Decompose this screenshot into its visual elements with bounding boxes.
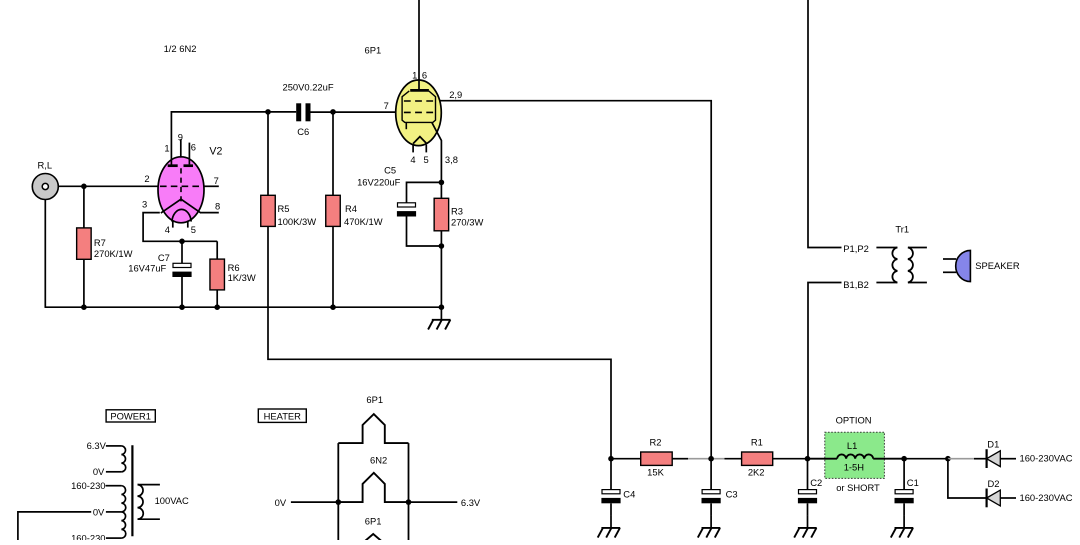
svg-text:C2: C2 [810,477,822,488]
svg-text:250V0.22uF: 250V0.22uF [283,81,334,92]
svg-text:C3: C3 [726,489,738,500]
ground below C4 [598,515,621,537]
label 1/2 6N2 [164,43,197,54]
svg-text:15K: 15K [647,467,664,478]
node C1 junction [901,456,907,462]
svg-text:D2: D2 [988,478,1000,489]
wire input to V2 grid pin 2 [58,185,158,187]
svg-text:6: 6 [422,69,427,80]
capacitor C5 16V220uF [357,164,441,246]
input jack R,L [32,160,58,200]
svg-text:R7: R7 [94,237,106,248]
resistor R1 2K2 [742,436,808,477]
svg-text:HEATER: HEATER [264,410,302,421]
svg-text:B1,B2: B1,B2 [843,279,869,290]
svg-text:160-230VAC: 160-230VAC [1020,453,1073,464]
svg-text:R1: R1 [751,436,763,447]
svg-text:R5: R5 [278,203,290,214]
inductor L1 1-5H (OPTION box) [808,414,905,493]
svg-text:1: 1 [412,69,417,80]
svg-text:C1: C1 [907,477,919,488]
svg-text:or SHORT: or SHORT [836,482,880,493]
node C6/R4 junction [330,109,336,115]
resistor R6 1K/3W [210,241,256,307]
capacitor C2 [798,459,822,516]
svg-text:C6: C6 [297,126,309,137]
svg-text:2: 2 [144,173,149,184]
svg-text:R,L: R,L [38,160,53,171]
svg-text:470K/1W: 470K/1W [344,216,383,227]
svg-text:SPEAKER: SPEAKER [975,260,1020,271]
svg-text:7: 7 [214,175,219,186]
heater 6P1 top [338,394,408,443]
wire C1 node to rectifier node [904,458,948,460]
capacitor C4 [601,459,635,516]
svg-text:4: 4 [165,224,170,235]
svg-text:1-5H: 1-5H [844,462,864,473]
svg-text:9: 9 [178,132,183,143]
svg-text:16V47uF: 16V47uF [128,262,166,273]
ground below C2 [794,515,817,537]
svg-text:R2: R2 [650,436,662,447]
wire V2 cathode pin 3 [143,213,217,242]
svg-text:0V: 0V [93,466,105,477]
node C2/L1 junction [805,456,811,462]
wire R5 to B+ node [268,226,611,458]
svg-text:1K/3W: 1K/3W [228,272,256,283]
resistor R7 270K/1W [77,186,133,307]
wire R3 to ground rail [440,246,442,307]
svg-text:3: 3 [142,198,147,209]
svg-text:C4: C4 [623,489,635,500]
svg-text:2K2: 2K2 [748,467,765,478]
svg-text:270/3W: 270/3W [451,216,483,227]
label 6P1 [365,44,382,55]
svg-text:P1,P2: P1,P2 [843,243,869,254]
svg-text:6.3V: 6.3V [461,497,481,508]
svg-text:1/2 6N2: 1/2 6N2 [164,43,197,54]
wire 6P1 plate to top edge [418,0,420,89]
label HEATER [258,409,306,422]
svg-text:1: 1 [164,142,169,153]
wire heater 0V [275,497,339,508]
svg-text:0V: 0V [93,506,105,517]
svg-text:6.3V: 6.3V [87,440,107,451]
diode D2 [948,459,1073,508]
ground chassis symbol [428,307,451,329]
node ground rail end [439,304,445,310]
svg-text:0V: 0V [275,497,287,508]
svg-text:4: 4 [410,154,415,165]
node plate/R5/C6 junction [265,109,271,115]
tube V2 (1/2 6N2 dual triode) [142,132,222,236]
node input/R7 junction [81,184,87,190]
wire cathode 3,8 [432,122,442,182]
wire V2 plate pin 1 to C6 [171,112,296,166]
resistor R3 270/3W [434,182,483,246]
node R7/ground rail [81,304,87,310]
svg-text:160-230VAC: 160-230VAC [1020,492,1073,503]
svg-text:D1: D1 [987,439,999,450]
wire input jack ground [44,200,46,308]
transformer Tr1 [843,223,927,289]
resistor R2 15K [611,436,742,477]
wire B+ from top edge to Tr1 primary P1,P2 [808,0,897,248]
svg-text:5: 5 [191,224,196,235]
svg-text:16V220uF: 16V220uF [357,176,401,187]
wire POWER1 0V to bottom edge [18,512,91,541]
svg-text:6P1: 6P1 [365,515,382,526]
node R6/ground rail [214,304,220,310]
resistor R4 470K/1W [326,112,383,307]
capacitor C1 [895,459,919,516]
svg-text:270K/1W: 270K/1W [94,248,133,259]
transformer POWER1 HV winding 160-230/0V/160-230 [71,480,126,544]
node cathode/C5/R3 junction [439,180,445,186]
svg-text:100VAC: 100VAC [155,495,189,506]
svg-text:R3: R3 [451,206,463,217]
wire Tr1 B1,B2 to C2 node [808,283,842,459]
wire screen grid 2,9 to C3 node [440,101,711,459]
svg-text:2,9: 2,9 [449,89,462,100]
heater 6N2 [338,454,408,502]
capacitor C6 250V0.22uF [283,81,334,137]
svg-text:160-230: 160-230 [71,480,105,491]
wire C6 to 6P1 grid pin 7 [311,111,397,113]
svg-text:Tr1: Tr1 [895,223,909,234]
node rectifier junction [945,456,951,462]
diode D1 [948,439,1073,469]
node C7/ground rail [179,304,185,310]
tube 6P1 (beam tetrode) [384,69,463,164]
capacitor C3 [702,459,738,516]
svg-text:6P1: 6P1 [365,44,382,55]
wire heater 6.3V [409,497,481,508]
svg-text:160-230: 160-230 [71,533,105,541]
svg-text:L1: L1 [847,440,857,451]
node heater 0V junction [336,499,342,505]
svg-text:6N2: 6N2 [370,454,387,465]
resistor R5 100K/3W [261,112,316,227]
svg-text:5: 5 [423,154,428,165]
node heater 6.3V junction [406,499,412,505]
transformer POWER1 heater winding 6.3V-0V [87,440,126,477]
heater 6P1 bottom [365,515,382,541]
node cathode/C7/R6 junction [179,239,185,245]
svg-text:V2: V2 [209,146,222,158]
node C3/R1 junction [708,456,714,462]
heater bus right [408,443,410,541]
transformer POWER1 primary 100VAC [138,485,190,520]
svg-text:3,8: 3,8 [445,154,458,165]
svg-text:6: 6 [191,142,196,153]
label POWER1 [106,410,155,422]
svg-text:6P1: 6P1 [366,394,383,405]
node C5/R3 bottom junction [439,243,445,249]
svg-text:100K/3W: 100K/3W [278,216,317,227]
svg-text:7: 7 [384,100,389,111]
svg-text:POWER1: POWER1 [110,410,151,421]
svg-text:8: 8 [215,201,220,212]
transformer POWER1 core [131,445,133,536]
svg-text:OPTION: OPTION [836,414,872,425]
wire ground rail [45,306,442,308]
capacitor C7 16V47uF [128,241,191,307]
node C4/R2 B+ junction [608,456,614,462]
node R4/ground rail [330,304,336,310]
ground below C1 [891,515,914,537]
svg-text:C5: C5 [384,164,396,175]
speaker [943,250,1020,281]
ground below C3 [698,515,721,537]
heater bus left [337,443,339,541]
svg-text:R4: R4 [345,203,357,214]
